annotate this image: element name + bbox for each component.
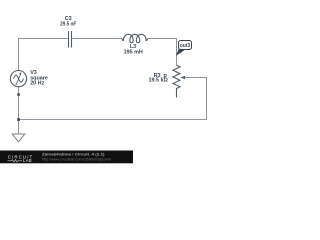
wire top-middle segment [72,38,123,40]
potentiometer R3_p [173,65,180,97]
svg-text:195 mH: 195 mH [124,49,143,55]
svg-text:19.5 kΩ: 19.5 kΩ [148,78,168,84]
svg-text:20 Hz: 20 Hz [30,81,44,87]
svg-text:out3: out3 [180,43,191,49]
watermark bar [0,151,133,164]
voltage source V3 [10,71,26,87]
watermark logo [8,154,34,163]
node out3 flag [176,41,191,56]
wire top-right segment [148,39,177,66]
voltage source V3 terminal dot [17,93,20,96]
potentiometer R3_p wiper arrow [180,76,185,80]
svg-text:LAB: LAB [23,158,32,163]
voltage source V3 arrowhead [19,72,21,75]
ground [12,134,25,142]
wire bottom segment [19,78,207,120]
inductor L3 [122,34,148,42]
wire source-to-ground segment [18,87,20,135]
junction dot [17,118,20,121]
wire top-left segment [19,39,69,71]
svg-text:ZainabFatima / Circuit_4 (2.1): ZainabFatima / Circuit_4 (2.1) [42,153,105,157]
svg-text:29.5 nF: 29.5 nF [60,21,77,27]
capacitor C3 [69,31,72,48]
svg-text:http://www.circuitlab.com/c/59: http://www.circuitlab.com/c/59kbm2y5zwdr [42,157,112,161]
